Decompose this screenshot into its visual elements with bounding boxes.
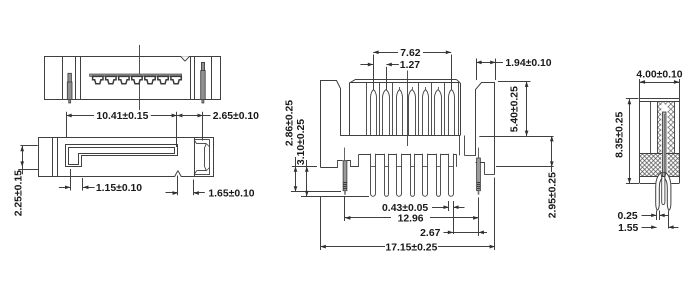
svg-text:7.62: 7.62 — [400, 48, 420, 59]
svg-text:1.55: 1.55 — [618, 223, 638, 234]
svg-text:3.10±0.25: 3.10±0.25 — [296, 119, 307, 165]
svg-text:1.65±0.10: 1.65±0.10 — [208, 189, 254, 200]
svg-text:8.35±0.25: 8.35±0.25 — [615, 112, 626, 158]
svg-text:17.15±0.25: 17.15±0.25 — [385, 242, 437, 253]
svg-text:4.00±0.10: 4.00±0.10 — [636, 70, 682, 81]
svg-text:2.86±0.25: 2.86±0.25 — [285, 100, 296, 146]
svg-text:2.67: 2.67 — [420, 228, 440, 239]
svg-text:1.94±0.10: 1.94±0.10 — [505, 58, 551, 69]
svg-text:5.40±0.25: 5.40±0.25 — [510, 86, 521, 132]
svg-text:2.65±0.10: 2.65±0.10 — [213, 111, 259, 122]
svg-text:10.41±0.15: 10.41±0.15 — [96, 111, 148, 122]
svg-text:1.15±0.10: 1.15±0.10 — [96, 183, 142, 194]
svg-text:2.25±0.15: 2.25±0.15 — [13, 170, 24, 216]
svg-text:0.43±0.05: 0.43±0.05 — [382, 203, 428, 214]
svg-text:12.96: 12.96 — [398, 214, 424, 225]
svg-text:2.95±0.25: 2.95±0.25 — [547, 172, 558, 218]
svg-text:1.27: 1.27 — [400, 60, 420, 71]
svg-text:0.25: 0.25 — [617, 211, 637, 222]
